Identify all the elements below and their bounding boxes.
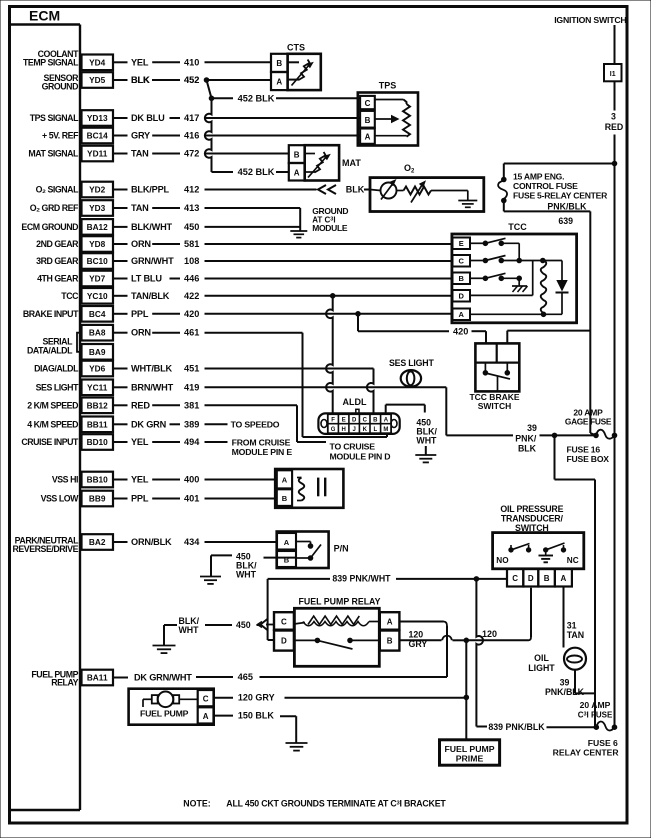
- ECM pin BC14: [42, 128, 113, 144]
- sensor CTS (coolant temp): [271, 43, 321, 91]
- wire 412 BLK/PPL: [113, 185, 317, 195]
- svg-text:A: A: [282, 476, 288, 485]
- svg-text:GRY: GRY: [409, 639, 428, 649]
- wire 452 BLK: [113, 75, 199, 85]
- svg-text:C: C: [512, 574, 518, 583]
- svg-text:2 K/M SPEED: 2 K/M SPEED: [27, 400, 78, 410]
- svg-text:461: 461: [184, 328, 199, 338]
- svg-text:BLK/WHT: BLK/WHT: [131, 222, 173, 232]
- svg-text:GRN/WHT: GRN/WHT: [131, 256, 174, 266]
- svg-text:417: 417: [184, 113, 199, 123]
- svg-text:400: 400: [184, 475, 199, 485]
- junction 120 GRY at fuel pump: [464, 695, 469, 700]
- ECM pin YD11: [28, 146, 113, 162]
- svg-text:C3I FUSE: C3I FUSE: [578, 711, 613, 720]
- chassis ground inside TCC: [512, 286, 528, 292]
- wire 434 ORN/BLK: [113, 537, 277, 547]
- svg-text:ORN: ORN: [131, 328, 151, 338]
- wire oil light to 39 PNK/BLK rail: [545, 670, 595, 697]
- svg-text:BC14: BC14: [87, 131, 109, 141]
- svg-text:C: C: [365, 99, 371, 108]
- svg-text:BRN/WHT: BRN/WHT: [131, 382, 174, 392]
- svg-text:D: D: [352, 418, 357, 424]
- wire 120 GRY from relay B to junction (hop over 465): [399, 629, 466, 649]
- svg-text:K: K: [363, 427, 368, 433]
- svg-text:39: 39: [560, 678, 570, 688]
- svg-text:401: 401: [184, 494, 199, 504]
- wire 120 to oil pressure switch D: [466, 588, 531, 641]
- wire 452 BLK vertical with hops to MAT A: [205, 98, 289, 177]
- junction ignition to 15A fuse: [612, 161, 617, 166]
- svg-text:FUSE 6: FUSE 6: [588, 738, 618, 748]
- svg-text:DATA/ALDL: DATA/ALDL: [27, 346, 73, 356]
- svg-text:419: 419: [184, 382, 199, 392]
- wire 420 branch to TCC brake switch: [358, 314, 486, 344]
- svg-text:+ 5V. REF: + 5V. REF: [42, 131, 79, 141]
- svg-text:FUSE 16: FUSE 16: [567, 445, 601, 455]
- svg-text:FROM CRUISE: FROM CRUISE: [232, 438, 291, 448]
- svg-text:TPS: TPS: [379, 81, 397, 91]
- svg-text:839 PNK/WHT: 839 PNK/WHT: [332, 574, 391, 584]
- junction node 120: [464, 638, 469, 643]
- ECM pin YD6: [34, 361, 113, 377]
- svg-text:YD13: YD13: [87, 113, 108, 123]
- svg-text:TAN: TAN: [567, 630, 584, 640]
- svg-text:E: E: [459, 239, 464, 248]
- note text: [183, 799, 446, 809]
- svg-text:BLK: BLK: [131, 75, 150, 85]
- svg-text:PNK/: PNK/: [515, 434, 537, 444]
- svg-text:A: A: [203, 712, 209, 721]
- svg-text:G: G: [331, 427, 336, 433]
- svg-text:472: 472: [184, 149, 199, 159]
- ECM pin YD8: [36, 236, 113, 252]
- svg-text:639: 639: [558, 216, 573, 226]
- svg-text:YEL: YEL: [131, 437, 149, 447]
- ground for P/N 450 BLK/WHT: [200, 576, 221, 578]
- svg-text:OIL: OIL: [534, 653, 549, 663]
- svg-text:YC11: YC11: [87, 382, 108, 392]
- ECM pin YC10: [61, 288, 113, 304]
- svg-text:3: 3: [611, 112, 616, 122]
- wire 420 PPL: [113, 309, 453, 319]
- svg-text:YD11: YD11: [87, 149, 108, 159]
- svg-text:YD4: YD4: [89, 57, 106, 67]
- svg-text:BC4: BC4: [89, 309, 106, 319]
- wire oil switch A to oil light 31 TAN: [564, 587, 585, 648]
- label FROM CRUISE MODULE PIN E (494 wire): [232, 438, 293, 458]
- svg-text:B: B: [282, 494, 288, 503]
- svg-text:2ND GEAR: 2ND GEAR: [36, 239, 79, 249]
- svg-text:FUEL PUMP: FUEL PUMP: [444, 744, 494, 754]
- svg-text:ORN/BLK: ORN/BLK: [131, 537, 172, 547]
- wire 400 YEL: [113, 475, 277, 485]
- svg-text:446: 446: [184, 274, 199, 284]
- svg-text:839 PNK/BLK: 839 PNK/BLK: [488, 722, 545, 732]
- svg-text:BB11: BB11: [87, 419, 108, 429]
- wire 416 GRY: [113, 131, 360, 141]
- svg-text:450: 450: [184, 222, 199, 232]
- svg-text:DK GRN: DK GRN: [131, 419, 167, 429]
- svg-text:WHT: WHT: [179, 625, 200, 635]
- junction 39 PNK/BLK: [552, 433, 557, 438]
- wire 120 node down to fuel pump prime: [465, 640, 467, 740]
- ECM pin BC10: [36, 253, 113, 269]
- ECM pin BB12: [27, 398, 113, 414]
- svg-text:410: 410: [184, 57, 199, 67]
- wire 413 TAN: [113, 203, 300, 213]
- svg-text:4TH GEAR: 4TH GEAR: [37, 274, 79, 284]
- svg-text:H: H: [342, 427, 346, 433]
- svg-text:TAN/BLK: TAN/BLK: [131, 291, 170, 301]
- ECM pin YD5: [42, 72, 113, 91]
- svg-text:B: B: [294, 150, 300, 159]
- svg-text:ALDL: ALDL: [343, 397, 367, 407]
- svg-text:452 BLK: 452 BLK: [238, 94, 275, 104]
- svg-text:D: D: [528, 574, 534, 583]
- svg-text:BA12: BA12: [87, 222, 109, 232]
- svg-text:GAGE FUSE: GAGE FUSE: [565, 417, 612, 427]
- svg-text:P/N: P/N: [334, 544, 349, 554]
- wire 472 TAN: [113, 149, 289, 159]
- component TCC solenoid assembly: [452, 222, 577, 323]
- wire 446 LT BLU: [113, 274, 453, 284]
- svg-text:SES LIGHT: SES LIGHT: [36, 382, 79, 392]
- svg-text:3RD GEAR: 3RD GEAR: [36, 256, 79, 266]
- wire 452 BLK branch to TPS C: [207, 80, 361, 104]
- svg-text:494: 494: [184, 437, 200, 447]
- ECM pin YC11: [36, 380, 113, 396]
- svg-text:I1: I1: [610, 71, 616, 78]
- wire fuse16 rail down right side: [555, 435, 596, 727]
- svg-text:DK GRN/WHT: DK GRN/WHT: [134, 673, 192, 683]
- junction 422 wire: [330, 294, 335, 299]
- svg-text:BB10: BB10: [87, 475, 109, 485]
- wire 410 YEL: [113, 57, 271, 67]
- wire 450 BLK/WHT from P/N B to ground: [211, 552, 296, 580]
- ECM pin YD4: [23, 49, 113, 70]
- svg-text:DK BLU: DK BLU: [131, 113, 165, 123]
- svg-text:A: A: [561, 574, 567, 583]
- wire 639 PNK/BLK from fuse to gage fuse junction: [504, 201, 596, 436]
- sensor MAT (manifold air temp): [289, 145, 362, 180]
- ECM pin BA11: [31, 669, 113, 687]
- svg-text:TO CRUISE: TO CRUISE: [330, 442, 376, 452]
- svg-text:FUEL PUMP RELAY: FUEL PUMP RELAY: [299, 597, 381, 607]
- ground inside O2 sensor: [458, 191, 477, 208]
- svg-text:BB12: BB12: [87, 400, 109, 410]
- svg-text:REVERSE/DRIVE: REVERSE/DRIVE: [12, 544, 78, 554]
- ECM pin BA9: [82, 344, 114, 360]
- svg-text:TAN: TAN: [131, 149, 149, 159]
- ECM pin BC4: [23, 306, 113, 322]
- svg-text:452 BLK: 452 BLK: [238, 167, 275, 177]
- svg-text:120: 120: [482, 629, 497, 639]
- svg-text:WHT: WHT: [236, 570, 257, 580]
- svg-text:120: 120: [409, 629, 424, 639]
- svg-text:NOTE:: NOTE:: [183, 799, 210, 809]
- wire 461 to ALDL pin M: [303, 333, 388, 437]
- svg-text:D: D: [458, 292, 464, 301]
- ECM pin YD13: [30, 110, 113, 126]
- svg-text:452: 452: [184, 75, 199, 85]
- ground for relay 450 BLK/WHT: [153, 625, 176, 653]
- ECM pin BA2: [12, 534, 113, 554]
- svg-text:TO SPEEDO: TO SPEEDO: [231, 420, 280, 430]
- wire 839 PNK/WHT from relay D to oil pressure switch C: [268, 574, 507, 640]
- svg-text:LIGHT: LIGHT: [528, 663, 555, 673]
- svg-text:IGNITION SWITCH: IGNITION SWITCH: [554, 15, 626, 25]
- wire 422 TAN/BLK: [113, 291, 453, 301]
- motor fuel pump: [129, 689, 214, 725]
- wire 494 YEL: [113, 437, 228, 447]
- svg-text:PNK/BLK: PNK/BLK: [547, 201, 587, 211]
- wire 419 BRN/WHT: [113, 382, 446, 392]
- wire 417 DK BLU: [113, 113, 360, 123]
- ECM pin YD3: [30, 200, 113, 216]
- switch TCC brake switch: [469, 343, 519, 411]
- svg-text:420: 420: [184, 309, 199, 319]
- wire 422 branch to ALDL pin F with hops: [326, 296, 333, 414]
- svg-text:TEMP SIGNAL: TEMP SIGNAL: [23, 58, 79, 68]
- svg-text:581: 581: [184, 239, 199, 249]
- svg-text:J: J: [353, 427, 356, 433]
- wire 452 BLK from YD5 to CTS A and 452 BLK branch: [113, 75, 271, 85]
- svg-text:ECM: ECM: [29, 8, 60, 24]
- wire ignition switch feed 3 RED: [554, 15, 626, 728]
- svg-text:ALL 450 CKT GROUNDS TERMINATE: ALL 450 CKT GROUNDS TERMINATE AT C3I BRA…: [226, 799, 446, 809]
- fuse 20 AMP gage fuse: [565, 408, 617, 465]
- svg-text:A: A: [365, 133, 371, 142]
- svg-text:120 GRY: 120 GRY: [238, 693, 275, 703]
- ECM pin YD2: [36, 182, 113, 198]
- svg-text:BRAKE INPUT: BRAKE INPUT: [23, 309, 79, 319]
- svg-text:RED: RED: [605, 122, 624, 132]
- svg-text:C: C: [203, 695, 209, 704]
- junction 452 BLK: [209, 96, 214, 101]
- svg-text:31: 31: [567, 621, 577, 631]
- svg-text:15 AMP ENG.: 15 AMP ENG.: [513, 172, 564, 182]
- svg-text:L: L: [373, 427, 377, 433]
- bracket serial data BA8/BA9: [27, 333, 82, 356]
- svg-text:434: 434: [184, 537, 200, 547]
- wire 39 PNK/BLK from SES light to gage fuse: [446, 387, 596, 453]
- svg-text:TAN: TAN: [131, 203, 149, 213]
- svg-text:TPS SIGNAL: TPS SIGNAL: [30, 113, 79, 123]
- svg-text:CTS: CTS: [287, 43, 305, 53]
- switch park/neutral P/N: [277, 532, 349, 569]
- svg-text:412: 412: [184, 185, 199, 195]
- svg-text:FUSE BOX: FUSE BOX: [567, 454, 610, 464]
- svg-text:RELAY: RELAY: [51, 677, 78, 687]
- lamp SES light: [389, 358, 434, 387]
- wire 581 ORN: [113, 239, 453, 249]
- svg-text:YD2: YD2: [89, 185, 106, 195]
- svg-text:CONTROL FUSE: CONTROL FUSE: [513, 181, 578, 191]
- svg-text:YD5: YD5: [89, 75, 106, 85]
- wire 461 ORN: [113, 328, 303, 338]
- svg-text:450: 450: [236, 620, 251, 630]
- svg-text:DIAG/ALDL: DIAG/ALDL: [34, 364, 79, 374]
- lamp oil light: [528, 648, 586, 673]
- svg-text:MAT SIGNAL: MAT SIGNAL: [28, 149, 79, 159]
- svg-text:BLK: BLK: [346, 185, 365, 195]
- svg-text:B: B: [387, 637, 393, 646]
- svg-text:BLK: BLK: [518, 444, 537, 454]
- svg-text:B: B: [458, 274, 464, 283]
- ECM pin BB10: [52, 472, 113, 488]
- svg-text:A: A: [458, 310, 464, 319]
- svg-text:416: 416: [184, 131, 199, 141]
- svg-text:BA9: BA9: [89, 347, 106, 357]
- wire 381 RED: [113, 400, 297, 410]
- svg-text:PPL: PPL: [131, 494, 149, 504]
- svg-text:A: A: [387, 618, 393, 627]
- wire relay A to 465 (ECM driver): [399, 622, 447, 678]
- connector arrows 412 wire: [318, 185, 370, 195]
- junction 839 PNK/WHT: [474, 577, 479, 582]
- svg-text:YD3: YD3: [89, 203, 106, 213]
- ECM pin BB9: [41, 491, 113, 507]
- wire to 15 AMP ENG fuse: [504, 164, 615, 180]
- svg-text:C: C: [281, 618, 287, 627]
- svg-text:A: A: [294, 168, 300, 177]
- svg-text:20 AMP: 20 AMP: [580, 700, 611, 710]
- svg-text:465: 465: [238, 672, 253, 682]
- svg-text:TCC: TCC: [61, 291, 79, 301]
- ECM pin BA8: [82, 325, 114, 341]
- wire 401 PPL: [113, 494, 277, 504]
- sensor TPS (throttle position): [358, 81, 418, 146]
- svg-text:ORN: ORN: [131, 239, 151, 249]
- wire 451 to ALDL pin B with hop: [367, 369, 374, 414]
- svg-text:381: 381: [184, 400, 199, 410]
- svg-text:F: F: [331, 418, 335, 424]
- wire 389 DK GRN: [113, 419, 228, 429]
- wire 381 to cruise module pin D: [297, 405, 390, 461]
- svg-text:YEL: YEL: [131, 475, 149, 485]
- svg-text:RELAY CENTER: RELAY CENTER: [553, 748, 620, 758]
- svg-text:A: A: [384, 418, 389, 424]
- junction 420 wire: [356, 312, 361, 317]
- wire 150 BLK fuel pump A: [214, 711, 297, 743]
- fuse 15 AMP engine control fuse: [498, 172, 608, 203]
- sensor O2 (oxygen): [370, 163, 484, 212]
- svg-text:GRY: GRY: [131, 131, 150, 141]
- svg-text:BA11: BA11: [87, 673, 108, 683]
- svg-text:LT BLU: LT BLU: [131, 274, 162, 284]
- fuse 20 AMP C3I fuse: [553, 700, 620, 758]
- svg-text:TRANSDUCER/: TRANSDUCER/: [501, 514, 564, 524]
- svg-text:YD7: YD7: [89, 274, 106, 284]
- svg-text:NC: NC: [567, 556, 579, 565]
- svg-text:WHT: WHT: [416, 436, 437, 446]
- svg-text:YEL: YEL: [131, 57, 149, 67]
- svg-text:108: 108: [184, 256, 199, 266]
- svg-text:TCC: TCC: [508, 222, 527, 232]
- ground at C3I module (413 and 450): [290, 206, 348, 237]
- svg-text:OIL PRESSURE: OIL PRESSURE: [500, 504, 563, 514]
- svg-text:BLK/PPL: BLK/PPL: [131, 185, 169, 195]
- svg-text:BA2: BA2: [89, 537, 106, 547]
- svg-text:NO: NO: [496, 556, 509, 565]
- svg-text:ECM GROUND: ECM GROUND: [21, 222, 78, 232]
- sensor VSS (vehicle speed): [275, 469, 343, 508]
- wire brake switch to 39 PNK/BLK rail: [507, 331, 590, 344]
- svg-text:B: B: [276, 59, 282, 68]
- ground for 150 BLK: [286, 742, 308, 744]
- wire 839 vertical to 839 PNK/BLK fuse (hops 120 wire): [476, 579, 596, 732]
- svg-text:GROUND: GROUND: [42, 82, 78, 92]
- svg-text:4 K/M SPEED: 4 K/M SPEED: [27, 419, 78, 429]
- svg-text:MODULE: MODULE: [312, 223, 348, 233]
- wire 451 WHT/BLK: [113, 364, 374, 374]
- svg-text:O₂ SIGNAL: O₂ SIGNAL: [36, 185, 79, 195]
- svg-text:YD6: YD6: [89, 364, 106, 374]
- svg-text:FUSE 5-RELAY CENTER: FUSE 5-RELAY CENTER: [513, 191, 608, 201]
- svg-text:WHT/BLK: WHT/BLK: [131, 364, 173, 374]
- svg-text:389: 389: [184, 419, 199, 429]
- svg-text:C: C: [363, 418, 368, 424]
- wire 450 BLK/WHT: [113, 222, 300, 232]
- junction 452 at YD5 wire: [204, 78, 209, 83]
- svg-text:422: 422: [184, 291, 199, 301]
- ECM pin BD10: [21, 434, 113, 450]
- svg-text:CRUISE INPUT: CRUISE INPUT: [21, 437, 79, 447]
- svg-text:BB9: BB9: [89, 494, 106, 504]
- wire 108 GRN/WHT: [113, 256, 453, 266]
- svg-text:150 BLK: 150 BLK: [238, 711, 275, 721]
- svg-text:MODULE PIN D: MODULE PIN D: [330, 452, 391, 462]
- svg-text:MODULE PIN E: MODULE PIN E: [232, 447, 293, 457]
- svg-text:B: B: [544, 574, 550, 583]
- svg-text:B: B: [373, 418, 378, 424]
- relay fuel pump relay: [274, 597, 399, 667]
- svg-text:413: 413: [184, 203, 199, 213]
- svg-text:SWITCH: SWITCH: [478, 401, 512, 411]
- svg-text:E: E: [342, 418, 346, 424]
- svg-text:A: A: [276, 77, 282, 86]
- svg-text:VSS LOW: VSS LOW: [41, 494, 80, 504]
- svg-text:VSS HI: VSS HI: [52, 475, 78, 485]
- svg-text:420: 420: [453, 327, 468, 337]
- svg-text:BA8: BA8: [89, 328, 106, 338]
- ground for ALDL 450 BLK/WHT: [415, 446, 436, 462]
- svg-text:BC10: BC10: [87, 256, 109, 266]
- svg-text:451: 451: [184, 364, 199, 374]
- connector ALDL: [318, 397, 399, 434]
- label TO SPEEDO (389 wire): [231, 420, 280, 430]
- svg-text:39: 39: [527, 423, 537, 433]
- wire 450 BLK/WHT into relay C: [164, 616, 274, 635]
- svg-text:D: D: [281, 637, 287, 646]
- svg-text:MAT: MAT: [342, 158, 361, 168]
- svg-text:C: C: [458, 257, 464, 266]
- ECM connector block: [10, 8, 81, 811]
- svg-text:RED: RED: [131, 400, 150, 410]
- connector fuel pump prime: [440, 740, 500, 765]
- svg-text:SES LIGHT: SES LIGHT: [389, 358, 434, 368]
- svg-text:FUEL PUMP: FUEL PUMP: [140, 709, 189, 719]
- ECM pin BA12: [21, 219, 113, 235]
- switch oil pressure transducer: [493, 504, 584, 587]
- ECM pin YD7: [37, 271, 113, 287]
- svg-text:A: A: [284, 538, 290, 547]
- wire 465 DK GRN/WHT from BA11 to fuel pump relay A: [113, 672, 447, 682]
- svg-text:M: M: [383, 427, 388, 433]
- svg-text:PPL: PPL: [131, 309, 149, 319]
- ground inside oil pressure switch: [539, 550, 554, 562]
